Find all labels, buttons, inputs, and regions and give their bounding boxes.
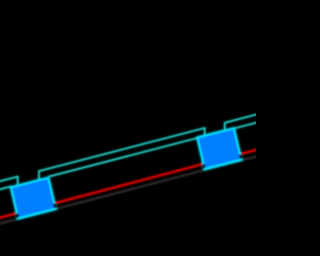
red road line segment between buildings [55, 164, 203, 203]
cyan wall glow [0, 114, 258, 190]
left building door gap on right edge [54, 204, 55, 208]
lower cyan wall line segments [0, 122, 258, 190]
red road glow [0, 149, 258, 218]
red road line segment right of right building [240, 149, 258, 154]
dark road line (full width, passes behind buildings) [0, 156, 258, 224]
left building door gap on left edge [17, 213, 18, 217]
right building door gap on left edge [202, 164, 206, 168]
right building (blue, cyan outline) [197, 128, 241, 169]
red road line segment left of left building [0, 213, 17, 218]
left building (blue, cyan outline) [11, 178, 56, 219]
upper cyan wall line with stubs down to building tops [0, 114, 258, 186]
right building door gap on right edge [240, 155, 241, 159]
